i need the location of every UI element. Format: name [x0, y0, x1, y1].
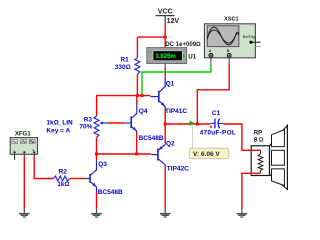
svg-text:1kΩ: 1kΩ	[57, 181, 69, 188]
wire stub into speaker top	[251, 149, 260, 151]
ground under speaker	[237, 209, 248, 217]
speaker cone slot 2	[272, 150, 285, 165]
oscilloscope trace A	[207, 27, 239, 45]
svg-text:+: +	[149, 49, 152, 54]
wire speaker bottom to ground	[242, 173, 261, 209]
svg-text:8 Ω: 8 Ω	[254, 137, 264, 144]
wire XFG1 output to R2	[34, 157, 53, 179]
svg-text:1kΩ_LIN: 1kΩ_LIN	[46, 119, 73, 126]
wire Q4 collector up to node	[136, 96, 138, 104]
svg-text:BC548B: BC548B	[139, 135, 164, 142]
svg-text:BC548B: BC548B	[98, 189, 123, 196]
svg-text:R1: R1	[120, 56, 129, 63]
svg-text:V: 6.06 V: V: 6.06 V	[193, 151, 220, 158]
wire branch VCC node to R1 top	[137, 36, 165, 38]
svg-text:U1: U1	[188, 54, 196, 61]
transistor Q4	[131, 104, 137, 134]
svg-text:Q2: Q2	[166, 141, 175, 148]
wire Q3 collector to lower node	[96, 154, 98, 160]
svg-text:TIP41C: TIP41C	[165, 108, 187, 115]
XFG1 left pin stub	[14, 154, 16, 160]
svg-text:DC 1e+009Ω: DC 1e+009Ω	[165, 41, 201, 48]
svg-text:70%: 70%	[79, 124, 92, 131]
wire R3 bottom to lower node	[96, 137, 98, 154]
wire Q3 emitter to ground	[96, 192, 98, 209]
XFG1 right pin stub	[33, 154, 35, 157]
capacitor C1	[210, 122, 215, 124]
ground under Q3	[91, 209, 102, 217]
output node wire to C1	[165, 123, 210, 125]
speaker RP body	[251, 146, 269, 176]
wire multimeter bottom to Q1 collector	[164, 64, 166, 68]
wire R2 to Q3 base	[70, 178, 85, 180]
wire R1 bottom to node	[136, 75, 138, 96]
power VCC symbol	[156, 16, 175, 23]
multimeter U1 body	[147, 48, 187, 64]
svg-text:Q1: Q1	[166, 81, 175, 88]
speaker cone slot 1	[272, 130, 285, 147]
transistor Q3	[85, 160, 97, 192]
function generator XFG1 body	[10, 138, 37, 155]
svg-text:TIP42C: TIP42C	[167, 166, 189, 173]
resistor R2	[54, 176, 70, 181]
junction lower node left	[95, 153, 98, 156]
lower node wire Q3 collector to Q2 base	[97, 153, 152, 155]
speaker cone	[270, 125, 288, 189]
transistor Q2	[151, 142, 165, 168]
svg-text:ExtTrig: ExtTrig	[243, 35, 256, 39]
svg-text:C1: C1	[212, 110, 221, 117]
speaker cone slot 3	[272, 169, 285, 186]
oscilloscope ext trig terminal	[249, 41, 252, 44]
wire R3 wiper to Q4 base	[107, 122, 124, 124]
svg-text:Q4: Q4	[139, 108, 148, 115]
wire scope A stub	[210, 58, 212, 64]
speaker coil	[258, 150, 263, 173]
wire Q2 collector to ground	[164, 167, 166, 209]
oscilloscope XSC1 body	[204, 24, 255, 58]
svg-text:R2: R2	[59, 169, 68, 176]
wire scope A green to node	[142, 64, 211, 96]
potentiometer R3	[94, 116, 99, 137]
oscilloscope screen	[207, 26, 239, 47]
junction R1/Q4 collector	[136, 94, 139, 97]
XFG1 button square	[29, 140, 35, 144]
svg-text:VCC: VCC	[158, 8, 173, 15]
XFG1 button sine	[12, 140, 18, 144]
U1 side arrow	[183, 54, 185, 58]
wire Q4 emitter to lower node	[136, 134, 138, 155]
junction Q4 emitter node	[135, 153, 138, 156]
svg-text:R3: R3	[84, 116, 93, 123]
svg-text:XFG1: XFG1	[15, 132, 31, 138]
junction scope B node	[196, 123, 199, 126]
R3 wiper arrow	[101, 122, 107, 124]
wire stub into speaker bottom	[251, 172, 260, 174]
svg-text:470uF-POL: 470uF-POL	[200, 129, 237, 136]
probe arrow	[189, 121, 194, 126]
XFG1 terminal common	[23, 151, 25, 153]
node bias top: wire pot top corner to Q1 base	[97, 96, 151, 116]
svg-text:3.825m: 3.825m	[155, 54, 175, 60]
resistor R1	[135, 58, 140, 75]
svg-text:XSC1: XSC1	[224, 16, 239, 22]
ground under Q2	[160, 209, 171, 217]
ground under XFG1	[19, 209, 30, 217]
svg-text:12V: 12V	[167, 18, 180, 25]
junction VCC node	[164, 36, 167, 39]
probe readout box V: 6.06 V	[189, 148, 229, 159]
wire Q1 emitter to output node	[164, 109, 166, 142]
transistor Q1	[150, 79, 165, 109]
svg-text:330Ω: 330Ω	[115, 64, 131, 71]
wire VCC to multimeter top	[164, 23, 166, 48]
C1 polarity plus	[210, 126, 213, 129]
oscilloscope trace B	[207, 30, 239, 43]
XFG1 button triangle	[21, 140, 27, 144]
junction green probe node	[141, 94, 144, 97]
svg-text:Q3: Q3	[98, 161, 107, 168]
wire scope B stub	[228, 58, 230, 64]
wire R1 top	[136, 37, 138, 58]
probe stem	[192, 126, 194, 148]
svg-text:RP: RP	[254, 130, 263, 137]
wire C1 to speaker top	[223, 124, 260, 150]
wire XFG1 common to ground	[23, 157, 25, 210]
XFG1 common pin stub	[23, 154, 25, 157]
junction output node	[164, 123, 167, 126]
wire scope B to output node	[197, 64, 229, 124]
svg-text:Key = A: Key = A	[46, 127, 70, 134]
